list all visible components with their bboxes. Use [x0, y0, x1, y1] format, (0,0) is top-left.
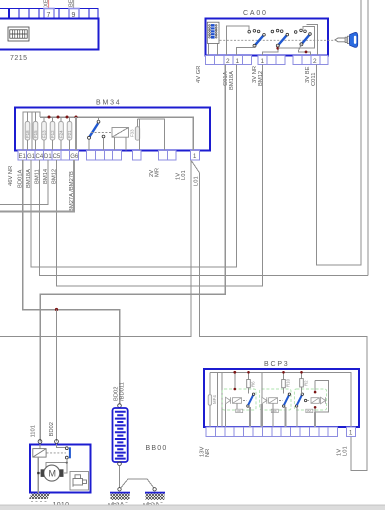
fuse MF4 line	[208, 372, 217, 427]
pin 2r	[313, 58, 317, 65]
label BM18A	[229, 71, 235, 90]
internal link loop	[23, 112, 40, 151]
internal loop L2	[222, 372, 235, 427]
wire cell1b to S2 pivot	[263, 46, 278, 56]
svg-text:2: 2	[313, 58, 317, 65]
svg-text:BD02: BD02	[49, 422, 55, 437]
connector icon of 7215	[8, 27, 29, 41]
wire BE (gray) into terminal 9	[73, 0, 75, 9]
pin E1	[19, 154, 27, 160]
label 1010	[53, 502, 70, 509]
svg-text:400: 400	[236, 409, 241, 413]
label /BD011	[120, 382, 126, 401]
wire C011 to page top	[317, 0, 362, 265]
relay module RE1	[222, 389, 256, 413]
wire brush to ground	[38, 472, 40, 474]
svg-text:C4: C4	[36, 154, 44, 160]
solenoid coil	[33, 443, 46, 493]
motor M	[41, 465, 64, 481]
dashed solenoid link	[47, 452, 67, 454]
node S2 junction	[276, 47, 279, 50]
box CA00	[206, 19, 329, 56]
node bus tap3	[282, 371, 285, 374]
pin top	[118, 404, 122, 408]
svg-text:F24: F24	[59, 130, 64, 138]
svg-text:1: 1	[236, 58, 240, 65]
wire cell1 to S1 pivot	[237, 46, 255, 56]
ground bridge	[121, 479, 154, 488]
pin 1b	[261, 58, 265, 65]
resistor R6	[247, 372, 256, 393]
wire contact to brush	[64, 463, 67, 473]
label BCP3	[264, 361, 290, 368]
label BD01A	[18, 169, 24, 188]
svg-text:BM18A: BM18A	[229, 71, 235, 90]
svg-text:F33: F33	[130, 129, 135, 137]
pin G6	[70, 154, 79, 160]
svg-text:C5: C5	[53, 154, 61, 160]
svg-text:G6: G6	[70, 154, 79, 160]
switch contact S3	[294, 29, 311, 46]
wire BM27 feed	[75, 117, 77, 151]
svg-text:/BD011: /BD011	[120, 382, 126, 401]
label MD10 ground name	[143, 504, 160, 510]
svg-text:BB00: BB00	[146, 445, 168, 452]
label 1V L01	[176, 170, 188, 180]
svg-text:46V NR: 46V NR	[8, 166, 14, 186]
fuse F13	[42, 117, 47, 151]
node S3 junction	[305, 51, 308, 54]
svg-text:4V GR: 4V GR	[196, 66, 202, 83]
wire RE1 coil down	[226, 403, 238, 427]
pin D1	[44, 154, 52, 160]
fuse F12	[50, 117, 55, 151]
label C01A	[223, 71, 229, 86]
fuse F33 capsule	[135, 119, 139, 140]
svg-text:M: M	[49, 469, 57, 479]
svg-text:XE: XE	[44, 0, 50, 7]
svg-text:BM34: BM34	[96, 100, 122, 107]
node motor ground	[37, 472, 39, 474]
svg-text:NR: NR	[205, 449, 211, 457]
wire L01 B	[192, 161, 368, 471]
label BM11	[35, 169, 41, 184]
svg-text:F12: F12	[50, 130, 55, 138]
svg-text:MF4: MF4	[212, 395, 217, 404]
svg-text:G1: G1	[27, 154, 36, 160]
node bus tap2	[247, 371, 250, 374]
svg-text:BM12: BM12	[258, 71, 264, 86]
wire S3 pivot to cell2r	[299, 44, 311, 55]
pin 7	[47, 12, 51, 19]
solenoid contact	[57, 443, 71, 459]
ground MB2 (battery right)	[145, 492, 165, 503]
pin ground M2	[153, 488, 156, 491]
svg-text:F15: F15	[33, 130, 38, 138]
label BE	[69, 0, 75, 7]
internal supply bus	[40, 117, 193, 151]
wire L01 A	[0, 160, 191, 337]
dashed link to relay coil	[91, 132, 112, 134]
box BCP3	[204, 369, 359, 427]
wire BM27A/B to page left	[0, 160, 74, 212]
pin 1	[193, 154, 197, 160]
svg-text:R2: R2	[304, 380, 309, 386]
pin G1	[27, 154, 36, 160]
terminal row BM34	[18, 151, 200, 161]
label 13V NR	[200, 447, 212, 457]
wire RE2 coil down	[262, 403, 273, 427]
relay coil in BM34	[112, 128, 135, 151]
box 7215	[0, 19, 99, 50]
svg-text:1101: 1101	[31, 425, 37, 437]
svg-text:R6: R6	[251, 381, 256, 387]
starter icon	[70, 472, 89, 491]
wire RE2 feed	[261, 372, 263, 397]
label 1101	[31, 425, 37, 437]
svg-text:E1: E1	[19, 154, 27, 160]
svg-text:BE: BE	[69, 0, 75, 7]
node F4 tap	[57, 116, 60, 119]
node starter tap	[55, 308, 58, 311]
label L01b	[194, 176, 200, 186]
bottom gray bar	[0, 505, 385, 510]
svg-text:1: 1	[261, 58, 265, 65]
relay switch in BM34	[88, 117, 105, 151]
svg-text:F13: F13	[42, 130, 47, 138]
node brush link	[66, 462, 68, 464]
wire starter BD02	[56, 310, 58, 442]
label 1V L01c	[337, 446, 349, 456]
wire BD01A battery feed	[23, 160, 120, 404]
label BD02b	[49, 422, 55, 437]
label 2V MR	[149, 168, 161, 177]
wire XE (red) into terminal 7	[48, 0, 50, 9]
label 7215	[10, 55, 28, 62]
pin ground M1	[118, 488, 121, 491]
svg-text:D1: D1	[44, 154, 52, 160]
svg-text:L01: L01	[194, 176, 200, 186]
label BM34	[96, 100, 122, 107]
terminal strip of 7215	[0, 9, 98, 19]
wire BM11 to right edge	[40, 160, 369, 276]
pin C4	[36, 154, 44, 160]
wire BM18A to CA00	[31, 65, 237, 268]
svg-text:BCP3: BCP3	[264, 361, 290, 368]
wire RE3 down	[297, 407, 315, 427]
pin bottom	[118, 462, 122, 466]
svg-text:F21: F21	[67, 130, 72, 138]
box BM34	[15, 108, 210, 151]
internal loop RE3	[315, 381, 329, 412]
pin A	[38, 440, 42, 444]
label MB10 ground name	[108, 504, 124, 510]
relay module RE3	[294, 389, 326, 413]
label BM12	[52, 169, 58, 184]
node RE3 top	[314, 391, 317, 394]
svg-text:L01: L01	[343, 446, 349, 456]
box 1010	[30, 445, 91, 493]
relay module RE2	[260, 389, 291, 413]
wire cell2 to S1 fixed contact	[226, 26, 249, 56]
svg-text:F18: F18	[25, 130, 30, 138]
svg-text:2: 2	[226, 58, 230, 65]
label XE	[44, 0, 50, 7]
node F6 tap	[75, 116, 78, 119]
internal loop right	[138, 119, 165, 151]
pin B	[55, 440, 59, 444]
label 46V NR	[8, 166, 14, 186]
label C011	[311, 73, 317, 86]
svg-text:CA00: CA00	[243, 10, 268, 17]
dashed actuating line	[220, 39, 335, 41]
resistor R10	[282, 372, 291, 393]
pin 2	[226, 58, 230, 65]
label 3V BE	[305, 66, 311, 83]
wire C01A starter solenoid	[40, 65, 225, 442]
pin 1 BCP3	[349, 431, 353, 437]
wire cell2r loop up	[307, 24, 318, 55]
node F5 tap	[66, 116, 69, 119]
connector icon of CA00	[207, 22, 219, 55]
wire BM14 to page left	[0, 160, 48, 205]
node bus tap1	[233, 371, 236, 374]
switch contact S1	[248, 30, 265, 48]
pin C5	[53, 154, 61, 160]
svg-text:L01: L01	[181, 170, 187, 180]
node RE3 bottom	[314, 406, 317, 409]
label BM18Ab	[26, 169, 32, 188]
battery BB00	[113, 408, 128, 462]
wire battery to ground	[119, 466, 121, 488]
svg-text:7215: 7215	[10, 55, 28, 62]
wire RE2 switch down	[284, 407, 286, 427]
label 4V GR	[196, 66, 202, 83]
internal loop L1	[217, 372, 219, 427]
label BM12c	[258, 71, 264, 86]
label CA00	[243, 10, 268, 17]
label BD02	[114, 386, 120, 401]
wire RE1 switch down	[249, 407, 251, 427]
pin 9	[72, 12, 76, 19]
node bus tap4	[300, 371, 303, 374]
node F3 tap	[48, 116, 51, 119]
resistor R11	[300, 372, 309, 393]
switch contact S2	[271, 29, 289, 47]
wire BM12 to CA00	[56, 65, 262, 287]
svg-text:MR: MR	[155, 168, 161, 177]
wire BM11 to page top	[367, 0, 369, 276]
svg-text:R10: R10	[286, 378, 291, 387]
fuse F21	[67, 117, 72, 151]
label BM27A/BM27B	[69, 171, 75, 212]
fuse F18	[25, 112, 30, 151]
key symbol	[335, 32, 358, 47]
fuse F24	[59, 117, 64, 151]
ground MB (battery left)	[110, 492, 130, 503]
node RE1 dot	[234, 388, 237, 391]
fuse F15	[33, 112, 38, 151]
ground starter	[29, 494, 50, 502]
wire contact to motor	[46, 459, 67, 468]
label 3V NR	[252, 66, 258, 83]
wire S2 junction to S3 contact loop	[278, 26, 315, 48]
label BM14	[43, 168, 49, 184]
internal top bus	[210, 372, 351, 427]
pin 1	[236, 58, 240, 65]
label BB00	[146, 445, 168, 452]
svg-text:45A: 45A	[306, 409, 311, 413]
terminal row BCP3	[206, 427, 356, 437]
terminal row CA00	[206, 56, 329, 65]
